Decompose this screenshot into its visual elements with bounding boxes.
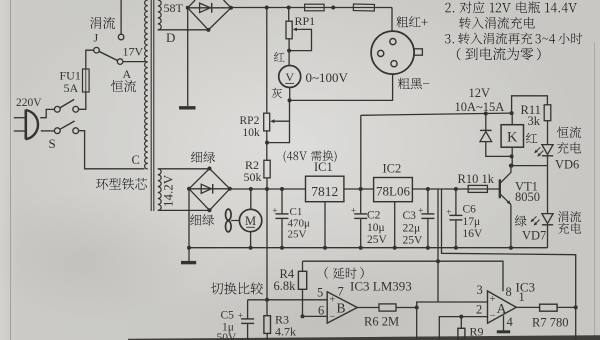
svg-text:A: A (497, 301, 507, 316)
svg-text:R6 2M: R6 2M (364, 314, 399, 328)
svg-text:7812: 7812 (311, 184, 338, 199)
svg-text:0~100V: 0~100V (306, 70, 349, 85)
svg-text:IC2: IC2 (383, 161, 402, 175)
wire diode bottom lead (486, 142, 512, 157)
wire DC+ top rail (231, 7, 392, 9)
wire fuse to J common (86, 50, 94, 69)
svg-text:IC3: IC3 (516, 279, 536, 294)
label grey (hui) (272, 88, 282, 98)
svg-text:C1: C1 (290, 206, 303, 218)
wire C5 top lead (247, 300, 249, 319)
junction R2 rail14 (265, 187, 269, 191)
junction RP2 bottom (265, 141, 269, 145)
capacitor C6 (449, 214, 462, 216)
svg-text:C3: C3 (403, 210, 417, 222)
svg-text:4: 4 (507, 315, 514, 329)
connector pin left (378, 50, 384, 56)
label red (hong) (274, 52, 284, 62)
junction C6 bus (454, 246, 458, 250)
label juanliu chongdian line2 (558, 223, 569, 234)
junction motor bus (249, 246, 253, 250)
transformer secondary 14.2V winding (158, 169, 161, 211)
junction diode bus (484, 112, 488, 116)
resistor R3 (264, 316, 271, 334)
wire connector- to meter (290, 74, 393, 100)
capacitor C2 (354, 213, 367, 215)
junction meter minus (288, 98, 292, 102)
junction IC1 gnd bus (323, 246, 327, 250)
RP1 wiper wire (289, 29, 311, 50)
switch JA common contact (94, 47, 100, 53)
resistor R11 (544, 105, 551, 121)
wire R6 node up to pin3 line (417, 302, 488, 308)
label hengliu chongdian VD6 line1 (557, 127, 569, 138)
junction C1 rail (280, 187, 284, 191)
svg-text:25V: 25V (288, 229, 307, 241)
connector XS body (371, 31, 414, 74)
wire bridge2 minus down (188, 189, 190, 248)
wire IC2 gnd (394, 202, 396, 248)
bridge rectifier U-B2 diamond (189, 169, 230, 211)
fan shaft (231, 220, 239, 222)
resistor R4 leads (302, 261, 304, 271)
junction VT1 bus (509, 246, 513, 250)
junction C2 bus (359, 246, 363, 250)
wire B output (357, 307, 379, 309)
svg-text:+: + (272, 206, 277, 216)
svg-text:5: 5 (317, 285, 323, 299)
label delay (yanshi) (325, 267, 329, 279)
svg-text:14.2V: 14.2V (160, 174, 175, 207)
junction diode K bottom (510, 154, 514, 158)
bridge1 vertex junctions (186, 6, 190, 10)
contact A (117, 59, 123, 65)
wire switch to fuse (79, 92, 86, 109)
ground (bridge1 negative) (179, 9, 196, 107)
wire bottom bus (189, 247, 548, 249)
svg-text:IC1: IC1 (314, 160, 333, 174)
label (48V need-swap) (284, 151, 287, 163)
svg-text:C: C (132, 153, 140, 167)
svg-text:C2: C2 (367, 210, 381, 222)
svg-text:VD6: VD6 (555, 158, 579, 172)
wire C5 bottom lead (247, 323, 249, 340)
svg-text:RP1: RP1 (295, 14, 316, 28)
svg-text:8: 8 (506, 285, 512, 299)
wire pin6 line (303, 315, 328, 317)
capacitor C1 (276, 213, 289, 215)
wire diode top lead (485, 114, 487, 131)
relay diode (480, 130, 492, 141)
wire rail down to connector (391, 8, 393, 32)
transformer primary winding (145, 0, 148, 169)
label thin-green lower (xilu) (190, 214, 201, 225)
wire C1 top lead (281, 189, 283, 214)
wire 14V rail (230, 188, 306, 190)
wire VT1 emitter down (510, 205, 512, 248)
label green (lu) (515, 215, 527, 226)
switch S pole2 (54, 121, 78, 134)
svg-text:−: − (330, 311, 336, 322)
wire R11 to VD6 (547, 121, 549, 145)
wire RP2 to R2 (266, 131, 268, 160)
junction below RP1 (287, 49, 291, 53)
wire 6V rail (412, 188, 499, 190)
instruction line3b (457, 48, 461, 60)
wire R2 to rail14 (266, 178, 268, 189)
transistor VT1 base bar (499, 179, 501, 198)
junction R6 node (415, 306, 419, 310)
junction K VD6 rail (510, 164, 514, 168)
connector key tab (414, 49, 422, 55)
label thin-green upper (xilu) (191, 152, 202, 163)
svg-text:+: + (351, 206, 356, 216)
voltmeter PV (279, 66, 301, 88)
wire 14.2V bottom to bridge2 (158, 209, 210, 211)
resistor R7 (540, 304, 558, 311)
junction L1 V1 (436, 259, 440, 263)
svg-text:50k: 50k (244, 170, 262, 184)
wire C3 top lead (427, 189, 429, 214)
junction R9 pin2 (459, 315, 463, 319)
resistor (top rail, right) (353, 4, 374, 11)
capacitor C5 (241, 318, 254, 320)
connector pin top (390, 39, 396, 45)
potentiometer RP2 (264, 113, 270, 131)
VT1 collector (500, 166, 511, 184)
junction top rail b (287, 6, 291, 10)
svg-text:+: + (238, 311, 243, 321)
wire motor top (250, 189, 252, 209)
svg-text:25V: 25V (403, 234, 424, 246)
junction C3 rail (426, 187, 430, 191)
junction C6 rail (454, 187, 458, 191)
wire K bottom lead (511, 147, 513, 165)
op-amp B IC3b (327, 292, 357, 323)
svg-text:78L06: 78L06 (376, 184, 410, 199)
VD6 arrows (535, 147, 540, 152)
resistor R2 (264, 160, 270, 178)
wire minus node down to RP2 wiper (272, 100, 289, 121)
wire motor bottom (250, 232, 252, 248)
junction 12V node (359, 187, 363, 191)
page right edge line (594, 42, 596, 340)
svg-text:R9: R9 (470, 324, 484, 338)
fuse FU1 5A (83, 69, 90, 92)
wire A output (516, 306, 539, 308)
transformer secondary 58T winding (158, 0, 161, 30)
wire 12V column up (360, 115, 362, 189)
potentiometer RP1 (286, 21, 292, 39)
resistor R3 bottom lead (266, 333, 268, 340)
svg-text:10k: 10k (243, 127, 261, 139)
wire 14.2V top to bridge2 (158, 168, 210, 170)
contact J (118, 34, 124, 40)
svg-text:B: B (336, 301, 345, 316)
svg-text:R7 780: R7 780 (532, 315, 568, 329)
switch S pole1 (54, 99, 78, 112)
svg-text:6.8k: 6.8k (274, 279, 297, 293)
label juanliu chongdian line1 (558, 211, 569, 222)
plug P 220V (14, 110, 38, 140)
svg-text:7: 7 (338, 285, 344, 299)
svg-text:+: + (446, 208, 451, 218)
VD7 arrows (531, 216, 536, 221)
wire RP1 to voltmeter (288, 39, 290, 66)
instruction line2b (459, 17, 471, 29)
wire 12V bus (361, 113, 512, 115)
label switching-compare (qiehuan bijiao) (211, 282, 223, 294)
op-amp A IC3a (488, 291, 517, 323)
resistor R9 (458, 328, 465, 340)
svg-text:S: S (49, 136, 56, 151)
label red K (hong) (526, 133, 537, 143)
svg-text:VD7: VD7 (522, 229, 546, 243)
relay coil K (501, 125, 523, 148)
svg-text:C5: C5 (221, 310, 235, 322)
bridge1 diode symbol (200, 3, 212, 13)
label hengliu chongdian VD6 line2 (557, 142, 568, 154)
page left edge line (10, 0, 12, 340)
svg-text:5A: 5A (64, 81, 79, 95)
svg-text:3k: 3k (528, 114, 541, 128)
svg-text:RP2: RP2 (240, 115, 260, 127)
RP2 wiper return wire (267, 121, 290, 142)
junction bus gnd (187, 246, 191, 250)
bridge2 diode symbol (201, 184, 213, 194)
svg-text:J: J (94, 31, 99, 45)
junction top rail c (331, 6, 335, 10)
svg-text:220V: 220V (16, 97, 42, 109)
wire rail to RP2 (266, 8, 268, 114)
svg-text:8050: 8050 (515, 190, 540, 204)
wire VD7 down to bus (547, 225, 549, 248)
junction C1 bus (280, 246, 284, 250)
svg-text:6: 6 (318, 303, 324, 317)
label trickle (juanliu) (90, 17, 101, 29)
label thick-red+ (cuhong+) (396, 16, 408, 27)
svg-text:4.7k: 4.7k (275, 324, 296, 338)
svg-text:M: M (245, 214, 256, 228)
svg-text:V: V (285, 70, 294, 84)
fan blades (226, 209, 232, 232)
wire C6 top lead (455, 189, 457, 215)
wire K top lead (511, 113, 513, 125)
junction IC2 gnd bus (393, 246, 397, 250)
wire IC1 gnd (324, 202, 326, 248)
capacitor C3 (421, 213, 434, 215)
svg-text:R10 1k: R10 1k (458, 172, 495, 186)
svg-text:58T: 58T (164, 1, 184, 15)
wire C3 bottom lead (427, 218, 429, 247)
switch JA arm (99, 51, 117, 60)
svg-text:17V: 17V (123, 45, 144, 59)
svg-text:D: D (166, 30, 175, 45)
wire voltmeter to minus node (289, 88, 291, 101)
instruction line2 (445, 3, 451, 12)
wire VD7 top (547, 166, 549, 214)
wire pin5 line (248, 299, 328, 301)
svg-text:+: + (418, 206, 423, 216)
svg-text:A: A (123, 67, 132, 81)
resistor (top rail, left) (305, 4, 325, 11)
instruction line3 (445, 34, 450, 43)
junction R4 pin6 (301, 314, 305, 318)
label constant-current (hengliu) (111, 80, 123, 92)
svg-text:K: K (507, 129, 518, 145)
svg-text:17μ: 17μ (463, 216, 481, 228)
wire plug to switch bottom (41, 130, 55, 132)
regulator IC1 7812 (306, 176, 344, 202)
LED VD7 (542, 214, 553, 225)
svg-text:3: 3 (477, 283, 483, 297)
svg-text:50V: 50V (217, 332, 238, 340)
resistor R10 (468, 185, 487, 192)
transformer core (150, 0, 152, 211)
svg-text:16V: 16V (463, 228, 484, 240)
wire C6 bottom lead (455, 220, 457, 248)
bottom scan bar (128, 335, 600, 340)
wire switch to C terminal (79, 131, 145, 169)
resistor R6 (379, 304, 396, 311)
wire J up to edge (120, 0, 122, 34)
wire relay loop top (512, 96, 548, 113)
wire rail to RP1 (288, 8, 290, 22)
wire R6 node down (416, 308, 418, 340)
svg-text:2: 2 (476, 302, 482, 316)
connector pin bottom (391, 61, 397, 67)
junction top rail a (265, 6, 269, 10)
svg-text:−: − (490, 311, 496, 322)
svg-text:+: + (490, 294, 496, 305)
wire A to primary tap (123, 61, 145, 63)
junction C3 bus (426, 246, 430, 250)
svg-text:10μ: 10μ (367, 222, 385, 234)
svg-text:10A~15A: 10A~15A (455, 100, 505, 114)
svg-text:22μ: 22μ (403, 222, 421, 234)
wire L1 supply line (303, 261, 504, 291)
svg-text:+: + (330, 295, 336, 306)
wire V2 tap down to pullup line (442, 189, 576, 340)
svg-text:C6: C6 (463, 204, 477, 216)
junction sense pin5 (265, 298, 269, 302)
svg-text:12V: 12V (469, 86, 491, 100)
motor M (239, 209, 261, 231)
resistor R4 (298, 271, 306, 289)
wire VD6 down (547, 156, 549, 166)
VT1 emitter (500, 194, 511, 205)
regulator IC2 78L06 (374, 178, 413, 202)
wire plug to switch top (40, 109, 54, 117)
wire C2 bottom lead (360, 218, 362, 247)
junction R7 pullup (574, 305, 578, 309)
svg-text:25V: 25V (367, 234, 388, 246)
resistor R9 lead (460, 317, 462, 329)
LED VD6 (542, 145, 553, 156)
RP1 wiper arrow (297, 28, 302, 30)
bridge rectifier U-B1 diamond (188, 0, 231, 30)
wire IC1 out (344, 188, 374, 190)
ground (main bus) (181, 248, 196, 263)
wire C1 bottom lead (281, 218, 283, 247)
label toroidal core (huanxing tiexin) (96, 178, 108, 189)
svg-text:IC3 LM393: IC3 LM393 (350, 278, 412, 293)
wire K-VD6 bottom rail (512, 165, 548, 167)
bridge2 vertex junctions (187, 187, 191, 191)
wire pin2 line (439, 317, 487, 340)
junction motor rail14 (249, 187, 253, 191)
junction K bus (510, 111, 514, 115)
wire R6 to node (396, 307, 417, 309)
wire R7 to pullup node (557, 306, 576, 308)
wire 58T bottom to bridge1 (158, 29, 209, 31)
resistor R3 top lead (266, 300, 268, 316)
wire C2 top lead (360, 189, 362, 214)
wire sense column to comparator (266, 189, 268, 300)
wire V1 6V tap down (437, 189, 439, 302)
op-amp A gnd pin4 (503, 316, 505, 332)
label thick-black- (cuhei-) (398, 78, 410, 89)
junction VT1 collector rail (509, 164, 513, 168)
